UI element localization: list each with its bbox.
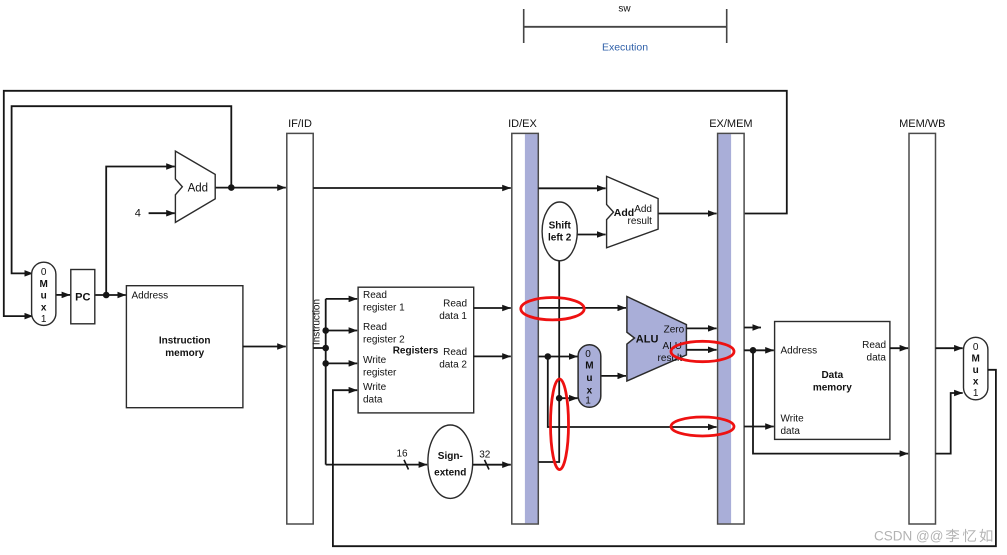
svg-text:Shift: Shift bbox=[549, 221, 572, 232]
alu mux (rounded) bbox=[578, 345, 601, 408]
svg-text:Execution: Execution bbox=[602, 42, 648, 54]
pipeline register EX/MEM bbox=[718, 133, 745, 524]
svg-text:Instruction: Instruction bbox=[312, 299, 323, 345]
mux write back bbox=[964, 337, 988, 400]
svg-text:Sign-: Sign- bbox=[438, 451, 463, 462]
bracket horizontal bbox=[524, 26, 727, 28]
wire write register bbox=[326, 362, 358, 364]
wire read data 1 to ID/EX bbox=[474, 307, 511, 309]
svg-text:register 1: register 1 bbox=[363, 303, 405, 314]
svg-text:extend: extend bbox=[434, 468, 466, 479]
wire read data MEM/WB to mux input 0 bbox=[936, 347, 963, 349]
bus slash 32 bbox=[485, 460, 490, 470]
wire shift left 2 to Add2 bbox=[577, 234, 605, 236]
instruction memory box bbox=[126, 286, 242, 408]
wire constant 4 to Add bottom input bbox=[149, 212, 175, 214]
junction read data 2 branch bbox=[545, 353, 552, 360]
svg-text:1: 1 bbox=[973, 388, 979, 399]
annotation red ellipse write data bbox=[671, 417, 734, 436]
svg-text:4: 4 bbox=[135, 208, 141, 220]
junction PC output bbox=[103, 292, 110, 299]
svg-text:Address: Address bbox=[781, 346, 818, 357]
wire PC+4 IF/ID to ID/EX bbox=[313, 187, 511, 189]
svg-text:MEM/WB: MEM/WB bbox=[899, 118, 945, 130]
wire write data out of EX/MEM to Data memory bbox=[744, 426, 774, 428]
adder Add2 (branch target) bbox=[607, 176, 659, 247]
wire write back loop to registers write data bbox=[333, 370, 996, 546]
wire ALU result MEM/WB to mux input 1 bbox=[936, 393, 963, 454]
pipeline register EX/MEM purple half bbox=[718, 134, 731, 523]
wire ALU result out of EX/MEM to Data memory Address bbox=[744, 349, 774, 351]
pipeline register IF/ID bbox=[287, 133, 313, 524]
svg-text:Read: Read bbox=[363, 322, 387, 333]
svg-text:Write: Write bbox=[363, 382, 387, 393]
bus slash 16 bbox=[404, 460, 409, 470]
junction Add output bbox=[228, 184, 235, 191]
shift left 2 ellipse bbox=[542, 202, 577, 261]
svg-text:u: u bbox=[973, 365, 979, 376]
svg-text:left 2: left 2 bbox=[548, 233, 572, 244]
svg-text:result: result bbox=[628, 216, 653, 227]
wire read data 2 ID/EX to ALU mux input 0 bbox=[538, 356, 577, 358]
junction immediate to mux bbox=[556, 395, 563, 402]
svg-text:register: register bbox=[363, 368, 397, 379]
svg-text:data: data bbox=[781, 426, 801, 437]
bracket tick left bbox=[523, 9, 525, 43]
registers box bbox=[358, 287, 474, 413]
svg-text:x: x bbox=[973, 376, 979, 387]
svg-text:EX/MEM: EX/MEM bbox=[709, 118, 752, 130]
sign extend ellipse bbox=[428, 425, 473, 498]
svg-text:M: M bbox=[972, 353, 980, 364]
svg-text:PC: PC bbox=[75, 292, 90, 304]
svg-text:0: 0 bbox=[585, 349, 591, 360]
svg-text:Read: Read bbox=[363, 290, 387, 301]
svg-text:data: data bbox=[363, 395, 383, 406]
wire ID/EX PC+4 to Add2 bbox=[538, 187, 605, 189]
svg-text:Read: Read bbox=[862, 340, 886, 351]
wire read register 1 bbox=[326, 298, 358, 300]
adder Add (PC+4) bbox=[175, 151, 215, 222]
junction bus read reg 2 bbox=[322, 327, 329, 334]
svg-text:data 1: data 1 bbox=[439, 311, 467, 322]
svg-text:CSDN @@: CSDN @@ bbox=[874, 529, 943, 544]
wire read data 2 to ID/EX bbox=[474, 355, 511, 357]
svg-text:Instruction: Instruction bbox=[159, 336, 211, 347]
annotation red ellipse immediate bbox=[551, 379, 569, 470]
pipeline register ID/EX purple half bbox=[525, 134, 538, 523]
svg-text:ALU: ALU bbox=[636, 334, 659, 346]
svg-text:Data: Data bbox=[821, 370, 843, 381]
wire Data memory read data to MEM/WB bbox=[890, 347, 908, 349]
wire instruction bus vertical bbox=[325, 299, 327, 465]
wire read data 1 ID/EX to ALU bbox=[538, 307, 626, 309]
svg-text:register 2: register 2 bbox=[363, 335, 405, 346]
wire PC to Instruction memory Address bbox=[95, 294, 126, 296]
data memory box bbox=[775, 322, 890, 440]
pipeline register MEM/WB bbox=[909, 133, 936, 524]
pipeline register ID/EX bbox=[512, 133, 539, 524]
annotation red ellipse read data 1 bbox=[521, 298, 584, 320]
wire Add output to IF/ID bbox=[215, 187, 286, 189]
wire PC+4 feedback loop (Add output to PC mux input 0) bbox=[12, 106, 232, 273]
svg-text:M: M bbox=[585, 361, 593, 372]
svg-text:Write: Write bbox=[781, 414, 805, 425]
mux PC source bbox=[32, 262, 56, 325]
svg-text:u: u bbox=[41, 291, 47, 302]
annotation red ellipse ALU result bbox=[671, 341, 734, 361]
svg-text:1: 1 bbox=[585, 396, 591, 407]
bracket tick right bbox=[726, 9, 728, 43]
register PC bbox=[71, 270, 95, 324]
wire sign extend to ID/EX bbox=[473, 464, 511, 466]
wire to sign extend bbox=[326, 464, 428, 466]
svg-text:sw: sw bbox=[618, 4, 631, 15]
svg-text:Registers: Registers bbox=[393, 346, 439, 357]
svg-text:Write: Write bbox=[363, 355, 387, 366]
svg-text:0: 0 bbox=[973, 342, 979, 353]
svg-text:Zero: Zero bbox=[664, 325, 685, 336]
svg-text:32: 32 bbox=[479, 450, 491, 461]
svg-text:Add: Add bbox=[634, 204, 652, 215]
wire store data down and to EX/MEM bbox=[548, 357, 717, 428]
svg-text:Read: Read bbox=[443, 299, 467, 310]
svg-text:data: data bbox=[867, 353, 887, 364]
wire Zero to EX/MEM bbox=[686, 327, 716, 329]
wire instruction stub from IF/ID bbox=[313, 347, 326, 349]
wire ALU result to EX/MEM bbox=[686, 349, 716, 351]
svg-text:memory: memory bbox=[813, 383, 852, 394]
svg-text:u: u bbox=[586, 373, 592, 384]
ALU shape bbox=[627, 297, 687, 382]
wire read register 2 bbox=[326, 330, 358, 332]
wire ALU result down to MEM/WB bbox=[753, 350, 908, 453]
svg-text:1: 1 bbox=[41, 314, 47, 325]
svg-text:data 2: data 2 bbox=[439, 360, 467, 371]
svg-text:Read: Read bbox=[443, 347, 467, 358]
junction bus instruction bbox=[322, 345, 329, 352]
svg-text:IF/ID: IF/ID bbox=[288, 118, 312, 130]
wire Add2 result to EX/MEM bbox=[658, 213, 717, 215]
wire PC output up to Add top input bbox=[106, 167, 175, 296]
wire Mux to PC bbox=[56, 294, 70, 296]
wire immediate out of ID/EX up to shift left 2 bbox=[538, 261, 559, 462]
junction ALU result branch bbox=[750, 347, 757, 354]
svg-text:x: x bbox=[41, 302, 47, 313]
svg-text:Add: Add bbox=[188, 183, 208, 195]
wire branch feedback loop (EX/MEM Add result to PC mux input 1) bbox=[4, 91, 787, 316]
wire immediate branch to ALU mux input 1 bbox=[559, 397, 577, 399]
junction bus write reg bbox=[322, 360, 329, 367]
svg-text:M: M bbox=[40, 279, 48, 290]
svg-text:ID/EX: ID/EX bbox=[508, 118, 537, 130]
wire ALU mux output to ALU bbox=[601, 375, 626, 377]
svg-text:memory: memory bbox=[165, 348, 204, 359]
svg-text:Address: Address bbox=[132, 290, 169, 301]
wire Instruction memory to IF/ID bbox=[243, 346, 286, 348]
watermark CJK glyphs bbox=[946, 529, 959, 542]
svg-text:16: 16 bbox=[396, 448, 408, 459]
svg-text:0: 0 bbox=[41, 267, 47, 278]
wire Zero stub out of EX/MEM bbox=[744, 327, 761, 329]
